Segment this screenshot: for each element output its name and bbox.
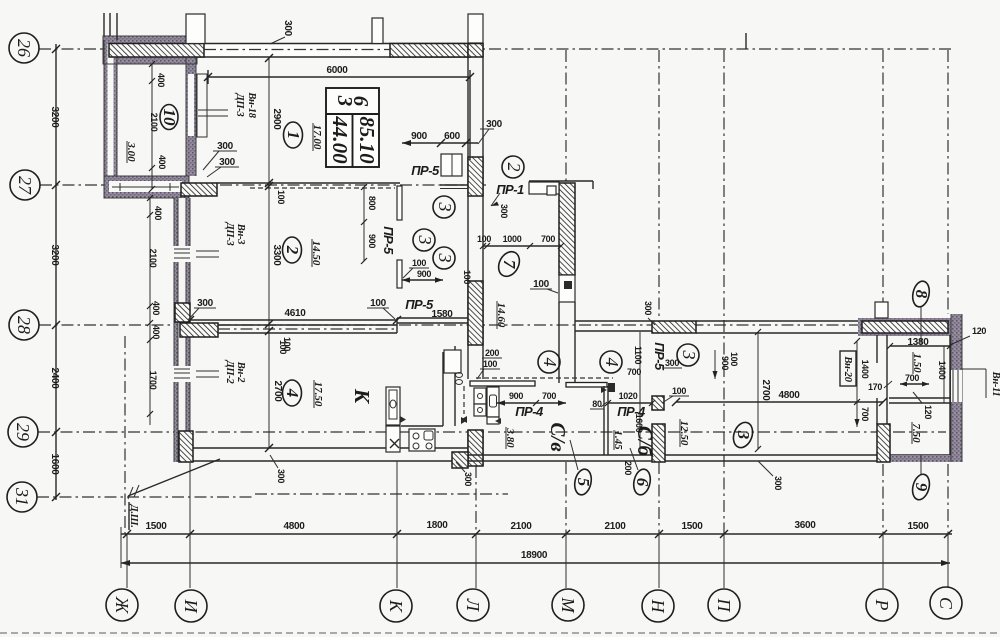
room ellipse 2: [283, 237, 302, 263]
svg-text:1800: 1800: [426, 520, 448, 531]
svg-text:ДП-2: ДП-2: [224, 360, 235, 385]
svg-text:29: 29: [13, 423, 33, 441]
svg-text:27: 27: [15, 176, 35, 195]
Вн-11: [962, 368, 986, 370]
hallway partition near ПР-1: [529, 181, 593, 195]
300 callout under kitchen wall left: [270, 455, 278, 468]
svg-text:300: 300: [463, 472, 473, 486]
svg-text:Вн-11: Вн-11: [990, 371, 1000, 397]
stove: [409, 429, 435, 451]
door 900/100: [714, 350, 716, 379]
svg-text:8: 8: [912, 290, 931, 299]
svg-text:Вн-3: Вн-3: [235, 223, 246, 244]
svg-text:200: 200: [485, 348, 499, 358]
svg-text:ПР-4: ПР-4: [515, 404, 544, 419]
position circles 3: [433, 196, 455, 218]
svg-text:3: 3: [435, 202, 455, 212]
svg-text:6: 6: [633, 478, 652, 487]
counter lines: [401, 425, 443, 427]
svg-text:18900: 18900: [521, 550, 548, 561]
Вн-3 ДП-3: [196, 250, 219, 252]
svg-text:2700: 2700: [272, 380, 283, 402]
top wall of left wing: [109, 44, 470, 58]
svg-text:1100: 1100: [633, 346, 643, 365]
svg-text:100: 100: [276, 190, 286, 204]
svg-text:1020: 1020: [619, 391, 638, 401]
rooms 8/9 inner walls: [877, 335, 950, 462]
scan edge artifact bottom: [0, 632, 1000, 634]
svg-text:Р: Р: [872, 599, 892, 611]
svg-text:300: 300: [499, 204, 509, 218]
balcony room10 grey walls: [103, 36, 207, 198]
svg-text:900: 900: [411, 131, 428, 142]
М wall x559-575: [559, 183, 575, 383]
balcony window strip in right wall: [188, 74, 194, 136]
balcony top wall band: [103, 36, 197, 64]
axis H vertical: [658, 50, 660, 320]
toilet circles: [456, 373, 463, 378]
axis circle 31: [7, 482, 37, 512]
dim 2900 vertical construction line: [268, 58, 270, 448]
svg-text:5: 5: [574, 478, 593, 487]
svg-text:3: 3: [415, 235, 435, 245]
axis circle 29: [8, 417, 38, 447]
sink with cross: [386, 426, 400, 452]
svg-text:800: 800: [367, 196, 377, 210]
svg-text:2100: 2100: [604, 521, 626, 532]
partition at axis 27: [181, 183, 468, 196]
kitchen fixtures: [386, 346, 467, 452]
connector ticks to circles: [121, 461, 948, 588]
svg-text:С: С: [936, 597, 956, 610]
svg-text:ДП-3: ДП-3: [234, 93, 245, 117]
svg-text:4610: 4610: [284, 308, 306, 319]
svg-text:100: 100: [278, 340, 288, 354]
window Вн-3 break: [173, 246, 191, 262]
svg-text:2100: 2100: [149, 113, 159, 132]
svg-text:1380: 1380: [907, 337, 929, 348]
lower wing top wall y321-333: [575, 302, 962, 462]
axis 26 line: [39, 48, 952, 50]
svg-text:4: 4: [283, 388, 302, 398]
Д.Ш diagonal: [128, 459, 220, 496]
svg-text:300: 300: [773, 476, 783, 490]
300 leader bottom: [758, 461, 773, 476]
bottom wall of kitchen + building bottom edge: [179, 431, 952, 468]
axis R vertical: [882, 50, 884, 303]
axis P vertical: [723, 50, 725, 534]
svg-text:С/б: С/б: [633, 426, 657, 458]
svg-text:300: 300: [643, 301, 653, 315]
pilaster columns above top wall: [104, 13, 746, 49]
right outer grey wall: [951, 314, 962, 462]
total chain: [121, 562, 950, 564]
svg-text:И: И: [181, 599, 201, 614]
room stamp table: [326, 88, 379, 167]
svg-text:6: 6: [349, 96, 373, 107]
svg-text:ПР-1: ПР-1: [496, 182, 524, 197]
svg-text:900: 900: [367, 234, 377, 248]
svg-text:400: 400: [157, 155, 167, 169]
axis Zh vertical: [124, 336, 126, 534]
dim 100 1000 700: [483, 245, 561, 247]
svg-text:2: 2: [504, 163, 524, 172]
svg-text:400: 400: [156, 73, 166, 87]
svg-text:ПР-5: ПР-5: [381, 226, 396, 255]
svg-text:6000: 6000: [326, 65, 348, 76]
800/900 vertical dim: [363, 187, 365, 261]
svg-text:100: 100: [370, 298, 387, 309]
axis circle 27: [10, 170, 40, 200]
svg-text:ПР-5: ПР-5: [405, 297, 434, 312]
svg-text:600: 600: [444, 131, 461, 142]
svg-text:120: 120: [972, 326, 986, 336]
ellipse 7: [495, 248, 524, 280]
2700 vertical dim: [757, 332, 759, 449]
dim 6000: [208, 76, 470, 78]
svg-text:700: 700: [860, 407, 870, 421]
area 17.00: [311, 123, 323, 151]
svg-text:85.10: 85.10: [355, 116, 379, 164]
svg-text:1400: 1400: [860, 360, 870, 379]
svg-text:300: 300: [486, 119, 503, 130]
svg-text:80: 80: [592, 399, 602, 409]
svg-text:1500: 1500: [145, 521, 167, 532]
svg-text:Л: Л: [463, 598, 483, 613]
300 callout top: [282, 20, 293, 37]
svg-text:4800: 4800: [778, 390, 800, 401]
room2 right partition (ПР-5 duct): [397, 186, 402, 288]
axis circle 26: [9, 33, 39, 63]
svg-text:700: 700: [905, 373, 919, 383]
svg-text:3: 3: [679, 350, 699, 360]
svg-text:900: 900: [720, 356, 730, 370]
hatch strip over balcony top band: [109, 44, 204, 58]
svg-text:1400: 1400: [937, 361, 947, 380]
window Вн-2 break: [173, 366, 191, 382]
left wall of kitchen/room2 (axis И): [173, 198, 191, 462]
svg-text:10: 10: [160, 109, 179, 127]
svg-text:1500: 1500: [907, 521, 929, 532]
svg-text:2700: 2700: [760, 379, 771, 401]
bathroom block partitions: [470, 378, 665, 462]
balcony right wall: [186, 56, 196, 176]
svg-text:120: 120: [923, 405, 933, 419]
svg-text:Вн-2: Вн-2: [235, 361, 246, 383]
svg-text:П: П: [714, 598, 734, 613]
svg-text:4: 4: [602, 358, 622, 367]
svg-text:2900: 2900: [271, 108, 282, 130]
svg-text:170: 170: [868, 382, 882, 392]
svg-text:2100: 2100: [148, 249, 158, 268]
svg-text:100: 100: [483, 359, 497, 369]
svg-text:700: 700: [627, 367, 641, 377]
svg-text:900: 900: [417, 269, 431, 279]
axis L vertical lower stub: [475, 466, 477, 534]
svg-text:3200: 3200: [49, 244, 60, 266]
svg-text:3200: 3200: [49, 106, 60, 128]
svg-text:400: 400: [151, 325, 161, 339]
svg-text:Вн-18: Вн-18: [246, 91, 257, 118]
С/б right wall hatched piers: [652, 396, 664, 410]
svg-text:3600: 3600: [794, 520, 816, 531]
svg-text:300: 300: [219, 157, 236, 168]
svg-text:700: 700: [542, 391, 556, 401]
svg-text:400: 400: [151, 301, 161, 315]
svg-text:Вн-20: Вн-20: [842, 355, 853, 382]
area 14.60: [495, 301, 507, 329]
ellipses 5 6 below: [572, 468, 593, 497]
axis M vertical: [565, 50, 567, 183]
axis S vertical: [947, 50, 949, 314]
svg-text:3300: 3300: [271, 244, 282, 266]
position circles 4: [538, 351, 560, 373]
axis 28 line: [39, 324, 950, 326]
Вн-2 ДП-2: [196, 370, 219, 372]
small hatched pier at 300 label: [175, 303, 190, 322]
svg-text:Ж: Ж: [112, 596, 132, 615]
svg-text:1580: 1580: [431, 309, 453, 320]
ПР-5 vent block in room1: [441, 154, 462, 176]
svg-text:28: 28: [14, 316, 34, 334]
svg-text:900: 900: [509, 391, 523, 401]
balcony left wall: [104, 40, 117, 198]
window in right wall: [951, 370, 962, 402]
axis 29 line: [38, 431, 946, 433]
pilaster above room8: [875, 302, 888, 318]
svg-text:4: 4: [540, 358, 560, 367]
area 14.50: [310, 239, 322, 267]
svg-text:Н: Н: [648, 599, 668, 614]
svg-text:100: 100: [533, 279, 550, 290]
svg-text:1500: 1500: [681, 521, 703, 532]
wall at axis 28: [180, 318, 468, 337]
bathroom fixtures: [461, 387, 501, 424]
svg-text:2400: 2400: [49, 367, 60, 389]
svg-text:1: 1: [284, 131, 303, 140]
Вн-20 boxed: [840, 351, 856, 386]
svg-text:300: 300: [276, 469, 286, 483]
svg-text:44.00: 44.00: [328, 115, 352, 164]
axis 27 line: [40, 184, 487, 186]
circle 2 + ПР-1: [502, 156, 524, 178]
svg-text:1600: 1600: [49, 453, 60, 475]
svg-text:ПР-5: ПР-5: [411, 163, 440, 178]
svg-text:400: 400: [153, 206, 163, 220]
room number ellipse 1: [284, 122, 303, 148]
svg-text:С/в: С/в: [546, 422, 570, 452]
wall on axis Л x468-483: [462, 14, 483, 466]
axis 26 centerline through top wall: [204, 49, 390, 51]
fridge: [386, 387, 400, 425]
svg-text:1700: 1700: [148, 371, 158, 390]
svg-text:31: 31: [12, 487, 32, 506]
svg-text:100: 100: [412, 258, 426, 268]
hatched wall segment right part: [390, 44, 470, 58]
grey wall outlines: [103, 36, 197, 198]
300 under wall right of kitchen: [463, 472, 473, 486]
svg-text:100: 100: [462, 270, 472, 284]
4800 horizontal dim: [676, 401, 883, 403]
svg-text:26: 26: [14, 39, 34, 57]
Вн-18 ДП-3: [198, 109, 228, 111]
svg-text:4800: 4800: [283, 521, 305, 532]
balcony bottom band: [104, 176, 189, 198]
svg-text:1000: 1000: [503, 234, 522, 244]
svg-text:9: 9: [912, 483, 931, 492]
svg-text:М: М: [558, 597, 578, 614]
chain line 1: [121, 533, 952, 535]
axis 28 centerline through wall: [218, 328, 397, 330]
axis 31 line: [37, 496, 255, 498]
axis circle 28: [9, 310, 39, 340]
svg-text:2: 2: [283, 245, 302, 255]
svg-text:300: 300: [197, 298, 214, 309]
svg-text:3: 3: [435, 253, 455, 263]
svg-text:300: 300: [282, 20, 293, 37]
svg-text:200: 200: [623, 461, 633, 475]
svg-text:ДП-3: ДП-3: [224, 222, 235, 246]
svg-text:100: 100: [477, 234, 491, 244]
svg-text:К: К: [350, 388, 374, 405]
svg-text:300: 300: [217, 141, 234, 152]
svg-text:3: 3: [734, 430, 753, 440]
svg-text:2100: 2100: [510, 521, 532, 532]
svg-text:К: К: [386, 599, 406, 613]
svg-text:100: 100: [672, 386, 686, 396]
svg-text:700: 700: [541, 234, 555, 244]
